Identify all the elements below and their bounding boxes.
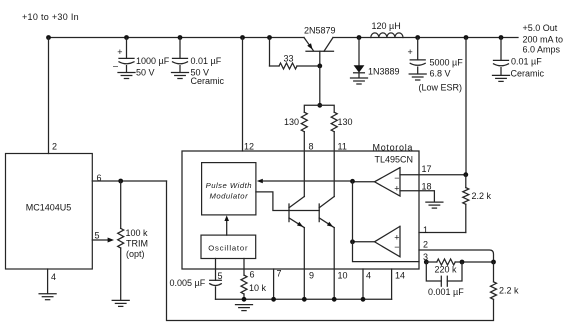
node 220k right junction bbox=[460, 260, 465, 265]
node pin 6 ground junction bbox=[242, 297, 247, 302]
wire QB emitter to pin 10 bbox=[333, 228, 335, 300]
svg-text:6: 6 bbox=[250, 270, 255, 280]
resistor 10k timing bbox=[241, 275, 247, 294]
svg-text:120 µH: 120 µH bbox=[372, 21, 401, 31]
svg-text:100 k: 100 k bbox=[126, 228, 149, 238]
ground below potentiometer bbox=[112, 299, 129, 301]
svg-text:+: + bbox=[408, 47, 413, 57]
svg-text:+: + bbox=[117, 47, 122, 57]
wire split to both 130 ohm resistors bbox=[304, 105, 334, 112]
svg-text:0.01 µF: 0.01 µF bbox=[191, 56, 222, 66]
capacitor C2 0.01uF 50V ceramic bbox=[178, 35, 183, 40]
svg-text:5: 5 bbox=[218, 271, 223, 281]
wire pin3 to 220k bbox=[426, 261, 437, 263]
op-amp U1a error amplifier (pins 17/18) bbox=[375, 168, 401, 196]
wire pin 5 lead bbox=[215, 259, 217, 281]
svg-text:1N3889: 1N3889 bbox=[368, 67, 400, 77]
svg-text:+: + bbox=[394, 233, 399, 243]
svg-text:10: 10 bbox=[338, 271, 348, 281]
resistor 130 (right, pin 11) bbox=[331, 112, 337, 132]
wire op-amp outputs to PWM input (arrow) bbox=[263, 180, 353, 182]
wire feedback sense line down to pin 17 bbox=[465, 38, 467, 175]
transistor QA (driver, pins 8/9) bbox=[288, 204, 290, 222]
svg-text:+5.0 Out: +5.0 Out bbox=[523, 23, 558, 33]
node pin 9 junction bbox=[302, 297, 307, 302]
svg-text:8: 8 bbox=[309, 142, 314, 152]
capacitor C1 1000uF 50V bbox=[124, 35, 129, 40]
wire PWM output to driver bases bbox=[256, 192, 319, 211]
wire pin 6 reference output bbox=[92, 180, 166, 182]
resistor R33 33 ohm bbox=[279, 63, 297, 69]
resistor 130 (left, pin 8) bbox=[301, 112, 307, 132]
svg-text:2.2 k: 2.2 k bbox=[472, 191, 492, 201]
svg-text:18: 18 bbox=[422, 182, 432, 192]
ground below rail bbox=[236, 304, 253, 306]
svg-text:5000 µF: 5000 µF bbox=[430, 58, 464, 68]
wire pin 2 drop to MC1404 bbox=[48, 38, 50, 154]
wire drop to R33 bbox=[269, 38, 271, 67]
wire pin 4 to ground bbox=[47, 269, 49, 294]
svg-text:7: 7 bbox=[277, 269, 282, 279]
svg-text:Pulse Width: Pulse Width bbox=[206, 181, 252, 190]
svg-text:6.0 Amps: 6.0 Amps bbox=[523, 45, 561, 55]
svg-text:200 mA to: 200 mA to bbox=[523, 34, 564, 44]
svg-text:4: 4 bbox=[51, 272, 56, 282]
node pin12 branch bbox=[240, 35, 245, 40]
svg-text:Ceramic: Ceramic bbox=[191, 76, 225, 86]
wire pin 14 lead bbox=[391, 269, 393, 299]
capacitor C5 0.005uF timing bbox=[210, 279, 222, 281]
svg-text:+: + bbox=[394, 184, 399, 194]
svg-text:1000 µF: 1000 µF bbox=[136, 56, 170, 66]
node feedback takeoff bbox=[464, 35, 469, 40]
ground below D1 bbox=[351, 77, 368, 79]
svg-text:−: − bbox=[394, 242, 399, 252]
node output cap junction bbox=[499, 35, 504, 40]
node feedback node (pin2/2.2k) bbox=[491, 260, 496, 265]
svg-text:130: 130 bbox=[338, 117, 353, 127]
node pin 3 junction bbox=[424, 260, 429, 265]
svg-text:TRIM: TRIM bbox=[126, 239, 148, 249]
ground below C4 bbox=[493, 74, 510, 76]
ground at pin 18 bbox=[426, 201, 443, 203]
inductor L1 120uH bbox=[371, 33, 403, 38]
ground below MC1404 pin 4 bbox=[39, 293, 56, 295]
wire pin 5 trim wiper bbox=[92, 239, 108, 241]
svg-text:2: 2 bbox=[52, 142, 57, 152]
svg-text:1: 1 bbox=[423, 225, 428, 235]
potentiometer 100k TRIM (opt) bbox=[120, 181, 122, 228]
wire pin 7 lead bbox=[273, 269, 275, 299]
wire pin 12 drop bbox=[242, 38, 244, 152]
wire main +V rail right section bbox=[333, 37, 518, 39]
svg-text:2.2 k: 2.2 k bbox=[499, 286, 519, 296]
ground below C2 bbox=[172, 72, 189, 74]
node R33 / base junction bbox=[317, 64, 322, 69]
svg-text:0.005 µF: 0.005 µF bbox=[170, 278, 206, 288]
svg-text:130: 130 bbox=[284, 117, 299, 127]
wire pin 6 lead bbox=[243, 259, 245, 276]
svg-text:Oscillator: Oscillator bbox=[208, 243, 248, 252]
svg-text:0.01 µF: 0.01 µF bbox=[511, 57, 542, 67]
svg-text:MC1404U5: MC1404U5 bbox=[26, 203, 72, 213]
block Pulse Width Modulator bbox=[202, 163, 256, 215]
resistor 2.2k (lower feedback divider) bbox=[493, 262, 495, 282]
node 130-ohm pair junction bbox=[317, 103, 322, 108]
transistor Q1 2N5879 PNP pass transistor bbox=[304, 38, 314, 51]
transistor QB (driver, pins 11/10) bbox=[318, 204, 320, 222]
node base-resistor branch bbox=[267, 35, 272, 40]
node pin 10 junction bbox=[332, 297, 337, 302]
svg-text:2: 2 bbox=[423, 240, 428, 250]
svg-text:5: 5 bbox=[95, 231, 100, 241]
IC U1 TL495CN outline bbox=[182, 151, 419, 269]
node op-amp2 output junction bbox=[350, 239, 355, 244]
wire ground rail bbox=[216, 298, 392, 300]
wire main +V rail left section bbox=[49, 37, 305, 39]
svg-text:4: 4 bbox=[366, 271, 371, 281]
svg-text:TL495CN: TL495CN bbox=[375, 155, 414, 165]
capacitor C3 5000uF 6.8V low ESR bbox=[417, 38, 419, 60]
svg-text:(Low ESR): (Low ESR) bbox=[419, 83, 463, 93]
node pot top junction bbox=[118, 179, 123, 184]
svg-text:+10 to +30 In: +10 to +30 In bbox=[22, 12, 79, 22]
svg-text:10 k: 10 k bbox=[249, 283, 267, 293]
capacitor 0.001uF across 220k bbox=[426, 262, 441, 281]
svg-text:6.8 V: 6.8 V bbox=[430, 69, 451, 79]
svg-text:33: 33 bbox=[284, 54, 294, 64]
svg-text:(opt): (opt) bbox=[126, 249, 145, 259]
svg-text:−: − bbox=[394, 173, 399, 183]
resistor 2.2k (pin17 to pin1 divider) bbox=[463, 172, 468, 177]
svg-text:17: 17 bbox=[422, 164, 432, 174]
wire pin 11 line into IC bbox=[333, 132, 335, 197]
svg-text:9: 9 bbox=[309, 271, 314, 281]
svg-text:14: 14 bbox=[395, 271, 405, 281]
node switch output / diode junction bbox=[357, 35, 362, 40]
svg-text:2N5879: 2N5879 bbox=[304, 25, 336, 35]
svg-text:Ceramic: Ceramic bbox=[511, 69, 545, 79]
wire op-amp2 output bbox=[353, 241, 375, 243]
wire QA emitter to pin 9 bbox=[303, 228, 305, 300]
wire pin 18 input to ground bbox=[400, 191, 434, 202]
node LC output junction bbox=[415, 35, 420, 40]
wire common outputs down to pin 3 bbox=[353, 181, 420, 261]
node input rail corner bbox=[46, 35, 51, 40]
wire op-amp1 output bbox=[353, 181, 375, 183]
wire reference line down and across bottom bbox=[167, 181, 494, 321]
svg-text:220 k: 220 k bbox=[435, 265, 458, 275]
op-amp U1b error amplifier (pins 1/2) bbox=[375, 226, 401, 256]
wire pin 4 lead bbox=[362, 269, 364, 299]
IC U2 MC1404U5 voltage reference box bbox=[6, 154, 93, 270]
wire pin 17 input bbox=[400, 174, 466, 176]
node pin 7 junction bbox=[271, 297, 276, 302]
wire pin 2 input bbox=[419, 250, 494, 262]
svg-text:12: 12 bbox=[244, 142, 254, 152]
wire pin 8 line into IC bbox=[303, 132, 305, 197]
block Oscillator bbox=[201, 235, 256, 258]
node op-amp1 output junction bbox=[350, 179, 355, 184]
resistor 220k feedback bbox=[437, 259, 455, 265]
svg-text:11: 11 bbox=[338, 142, 347, 152]
wire Q1 base lead bbox=[319, 51, 321, 66]
svg-text:–: – bbox=[113, 61, 118, 71]
capacitor C4 0.01uF ceramic (output) bbox=[500, 38, 502, 61]
node pin 4 junction bbox=[361, 297, 366, 302]
ground below C1 bbox=[118, 72, 135, 74]
wire pin 1 input bbox=[419, 232, 466, 234]
wire oscillator to PWM arrow bbox=[226, 220, 228, 236]
svg-text:50 V: 50 V bbox=[136, 68, 155, 78]
svg-text:Modulator: Modulator bbox=[209, 191, 248, 200]
svg-text:0.001 µF: 0.001 µF bbox=[428, 287, 464, 297]
diode D1 1N3889 bbox=[358, 38, 360, 66]
svg-text:Motorola: Motorola bbox=[373, 143, 414, 153]
ground below C3 bbox=[409, 73, 426, 75]
